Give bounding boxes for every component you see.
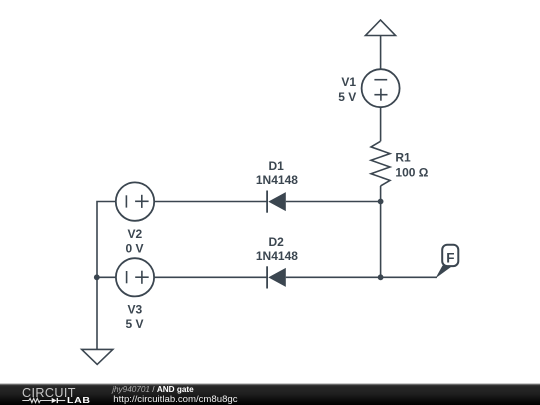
voltage source V2 — [116, 182, 154, 220]
svg-text:D2: D2 — [269, 235, 285, 249]
byline text — [112, 385, 193, 394]
diode D2 — [267, 266, 286, 288]
wire V3 to D2 — [154, 276, 267, 278]
voltage source V3 — [116, 258, 154, 296]
logo CIRCUIT text — [22, 386, 76, 400]
flag F tail — [436, 266, 454, 279]
svg-text:5 V: 5 V — [125, 317, 143, 331]
diode D1 — [267, 191, 286, 213]
footer bar — [0, 383, 540, 405]
wire to ground — [96, 277, 98, 349]
power flag V+ — [366, 20, 396, 36]
resistor R1 — [371, 141, 390, 186]
svg-text:V1: V1 — [341, 75, 356, 89]
wire D2 to flag F — [286, 276, 437, 278]
flag F box — [442, 245, 458, 266]
svg-text:5 V: 5 V — [338, 90, 356, 104]
wire power flag to V1 — [380, 36, 382, 70]
wire V3 left — [97, 276, 116, 278]
url text — [113, 394, 237, 405]
wire V1 to R1 — [380, 107, 382, 141]
logo LAB text — [67, 396, 91, 405]
svg-text:F: F — [446, 250, 454, 265]
wire R1 to node — [380, 186, 382, 202]
logo schematic glyph — [22, 394, 70, 405]
wire V2 to D1 — [154, 201, 267, 203]
wire node1 to node2 vertical — [380, 202, 382, 278]
svg-text:1N4148: 1N4148 — [256, 249, 298, 263]
junction node 1 — [378, 199, 384, 205]
svg-text:V2: V2 — [127, 227, 142, 241]
wire D1 to node1 — [286, 201, 381, 203]
svg-text:1N4148: 1N4148 — [256, 173, 298, 187]
svg-text:0 V: 0 V — [125, 241, 143, 255]
junction node 2 — [378, 274, 384, 280]
voltage source V1 — [362, 69, 400, 107]
svg-text:V3: V3 — [127, 303, 142, 317]
ground — [82, 349, 113, 364]
junction node 3 — [94, 274, 100, 280]
svg-text:D1: D1 — [269, 159, 285, 173]
svg-text:R1: R1 — [395, 151, 411, 165]
wire V2 left to corner — [97, 202, 116, 278]
svg-text:100 Ω: 100 Ω — [395, 165, 428, 179]
